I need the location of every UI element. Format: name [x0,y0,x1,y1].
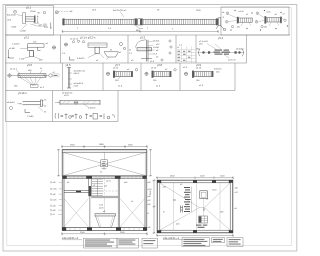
right plan bottom dimension [156,234,234,237]
row3 panel2 tick marks [68,73,72,84]
svg-text:n4 e6: n4 e6 [196,67,202,69]
detail 1 beam [25,16,34,21]
svg-text:n80: n80 [53,210,56,212]
detail 1 anchor symbol [44,24,48,28]
beam 2 right end plate [216,18,218,25]
svg-text:e8: e8 [235,208,237,210]
detail 1 dim arrow right [37,16,39,23]
left plan wall piers [62,176,147,179]
left plan roof ridge vertical [104,152,106,159]
row2 panel2 left target [64,43,68,47]
row4 panel2 left arrow [55,102,60,103]
row2 panel1 column [30,51,34,57]
row2 panel2 bolt circles [72,40,84,43]
steel beam 1 [63,19,137,24]
row4 panel1 end plate [41,100,43,106]
row3 panel3 target [106,72,110,76]
left plan canopy axis [104,198,106,213]
svg-text:o6.0x40 t5: o6.0x40 t5 [74,82,85,85]
svg-text:o6.0x40: o6.0x40 [7,102,15,104]
svg-text:0.8x125: 0.8x125 [88,108,96,110]
svg-text:o40: o40 [148,196,151,198]
svg-text:o6 t80: o6 t80 [9,47,16,50]
row3 panel1 fan bracing [20,77,41,85]
right plan inner wall [160,183,230,230]
svg-text:o6 n4: o6 n4 [151,67,157,69]
svg-text:1.2x125: 1.2x125 [12,44,20,46]
row2 panel5 right block [235,51,237,53]
row3 panel2 post [68,68,70,89]
row3 panel5 rod [194,72,212,77]
row4 panel1 bottom [25,109,30,113]
svg-text:1.2x6: 1.2x6 [19,58,25,60]
left plan middle diagonals [92,190,119,192]
left plan upper wall band [62,176,147,179]
right plan center label stack [184,187,191,212]
svg-text:e3a eo3n41 +1: e3a eo3n41 +1 [163,237,180,240]
left plan side walls [62,179,147,231]
svg-text:e125 n5: e125 n5 [228,59,236,61]
row3 panel1 bottom [31,85,39,88]
svg-text:o40: o40 [53,182,56,184]
svg-text:t-2: t-2 [177,46,179,49]
svg-text:n80: n80 [148,204,151,206]
svg-text:t0.8x4.0: t0.8x4.0 [214,67,222,70]
left plan upper wall band mullions [70,176,140,179]
right plan legend box 2 [212,238,225,243]
row2 panel3 beam [137,48,152,51]
left plan roof outline [62,150,147,176]
detail 1 target circle [14,10,17,13]
svg-text:1.2x80: 1.2x80 [20,31,27,33]
svg-text:o6.0x40: o6.0x40 [236,49,244,51]
svg-text:y3.8: y3.8 [157,63,162,67]
steel beam 2 [141,19,218,24]
row2 panel2 dish [104,52,119,57]
left plan left room X [64,199,89,228]
row2 panel3 base [141,58,152,60]
svg-text:o40: o40 [148,182,151,184]
row3 panel4 end cap [170,71,172,77]
left plan right inner wall [118,179,119,228]
svg-text:y3.2: y3.2 [24,36,29,40]
left plan bottom dimension [61,232,148,235]
left plan right label rows [148,182,152,229]
row4 panel2 anchor row [55,113,115,119]
detail 1 pin [50,23,51,29]
left plan roof inner edges [64,152,145,175]
right box detail A rod [239,18,253,22]
row3 panel4 rod [153,72,170,77]
row2 panel2 anchor [70,57,75,61]
left plan center wall [89,179,92,197]
left plan roof center stack [101,160,108,167]
row3 panel1 member [18,74,46,78]
row3 panel1 left target [7,73,18,77]
row4 panel1 rod [23,102,41,105]
svg-text:y3.4: y3.4 [218,36,223,40]
svg-text:e5: e5 [53,214,55,216]
left plan left vertical dim [57,149,60,177]
svg-text:0.8x125: 0.8x125 [77,58,85,60]
svg-text:1.2x80: 1.2x80 [27,116,34,118]
left plan right vertical dim [149,149,152,177]
beam right hanger detail [216,18,226,31]
row3 panel1 right target [46,74,52,77]
right plan bottom center cluster [199,216,208,223]
svg-text:o6.0x4: o6.0x4 [153,41,160,43]
left plan roof diagonals [64,153,145,176]
svg-text:e12: e12 [104,186,107,188]
right box detail B rod [266,18,280,22]
right box detail A plate [237,17,239,24]
right box detail A circles [226,12,234,28]
svg-text:o6 n1.2: o6 n1.2 [10,68,18,70]
svg-text:n80 t2: n80 t2 [74,72,81,75]
svg-text:y3.6: y3.6 [66,63,71,67]
row2 panel5 left bracket [199,49,201,56]
left plan legend box 3 [142,238,158,248]
row2 panel2 support [95,47,99,53]
svg-text:o2 n5: o2 n5 [106,180,111,182]
beam dimension line [62,30,219,33]
svg-text:t2 e80: t2 e80 [153,46,160,49]
row4 panel2 rod [60,100,100,105]
left plan middle partition [91,196,118,198]
detail 1 end plate [34,15,35,22]
left plan legend box 2 [117,238,139,248]
right box detail B circles [255,12,286,28]
svg-text:120x6: 120x6 [30,11,37,13]
right plan legend box 1 [182,238,210,247]
row4 panel2 center circle [74,100,78,104]
svg-text:y3.1-n p3.2-n: y3.1-n p3.2-n [80,36,96,40]
svg-text:y3.10-n: y3.10-n [18,91,27,95]
svg-text:y3.1: y3.1 [26,6,31,10]
left plan roof top band [62,151,147,153]
row2 panel1 top bar [28,44,45,47]
row4 panel1 circle [10,107,13,110]
row2 panel5 left block [208,51,210,53]
right plan outer wall [157,180,233,233]
svg-text:e3a eo3n41 +2: e3a eo3n41 +2 [62,237,79,240]
svg-text:y3.3: y3.3 [140,36,145,40]
svg-text:o40: o40 [53,194,56,196]
right plan corner fills [157,180,233,233]
right box detail B plate [264,16,266,23]
right plan top dimension [156,176,234,179]
beam assembly left bracket [55,11,58,14]
detail 1 channel post [23,13,26,24]
row3 panel5 target [184,72,188,76]
row2 panel1 axis pin [8,50,14,59]
right plan legend box 3 [227,238,243,247]
row2 panel5 assembly axis [198,52,245,54]
svg-text:e12: e12 [148,200,151,202]
row2 panel2 bracket beam [88,43,107,47]
row3 panel5 end cap [212,71,214,77]
svg-text:n125: n125 [53,189,57,191]
right plan cluster dark cell [199,216,201,222]
svg-text:t5: t5 [148,212,150,215]
beam 2 left end plate [141,18,143,25]
left plan left room partition [64,191,89,193]
row2 panel1 step [28,47,41,56]
left plan stairs block [92,179,103,196]
row3 panel3 rod [115,72,131,77]
svg-text:y3.5: y3.5 [27,63,32,67]
row2 panel5 center text cluster [214,50,231,55]
left plan bottom wall mullions [70,227,139,230]
row2 panel5 right bracket [242,49,244,56]
svg-text:6a6.0x40: 6a6.0x40 [7,14,16,16]
row2 panel3 arc [136,40,147,48]
svg-text:n4 o6: n4 o6 [239,11,245,13]
row2 panel5 leaders [207,44,229,59]
beam 1 left end plate [63,18,65,25]
right box detail B end plate [280,17,282,24]
right plan left dimension [153,179,156,234]
row3 panel5 plate [192,71,194,78]
beam 1 right end plate [135,18,137,25]
left plan top dimension line [61,145,148,148]
left plan canopy strip [95,214,116,216]
right plan chimney [200,191,208,199]
row2 panel1 target circle [52,46,56,50]
left plan legend box 1 [84,238,118,248]
svg-text:o40: o40 [53,205,56,207]
row3 panel3 plate [113,71,115,78]
beam splice connector [138,19,141,25]
left plan right room X [120,199,145,227]
right plan roof diagonals [160,183,230,230]
left plan left label rows [53,182,57,216]
right plan grid verticals [174,183,221,230]
svg-text:o40: o40 [148,227,151,229]
left plan canopy trapezoid [96,216,116,227]
left plan bottom wall [62,227,147,230]
row3 panel3 end cap [131,71,133,77]
row2 panel3 post [146,40,148,62]
svg-text:n12: n12 [235,192,238,194]
row3 panel4 plate [152,71,154,78]
svg-text:e125: e125 [53,199,57,201]
row2 schedule table [177,47,196,64]
svg-text:o6 n4: o6 n4 [113,67,119,69]
row2 panel2 right circles [120,43,126,50]
svg-text:o5 e5 n2: o5 e5 n2 [70,39,79,41]
row3 panel4 target [145,72,149,76]
detail 1 leader lines [22,23,43,30]
svg-text:o40: o40 [235,187,238,189]
panel grid lines [6,6,291,122]
right plan left dark mark [181,206,183,213]
